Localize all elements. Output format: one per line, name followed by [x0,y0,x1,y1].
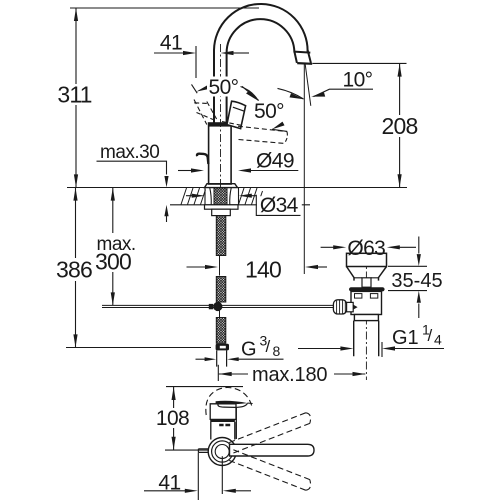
G1-1/4 dim arrows [340,346,353,350]
plan paddle black top [216,401,248,405]
black seal ring [349,287,385,291]
seal cone left [210,188,211,205]
Ø49 right tail + underline [250,170,298,172]
svg-text:Ø63: Ø63 [347,237,385,260]
label 311 [60,84,90,105]
50deg-1 right arrowhead [246,91,258,101]
dashed lever left edge A [194,100,207,125]
plan body sides [211,408,237,440]
G3/8 left tail [196,358,206,360]
plan bottom ref line (pivot level) [165,449,215,451]
140 left tail [187,266,206,268]
body slot left [355,294,362,299]
50-2 lower tail line [272,129,287,131]
spout 10deg slant line [305,64,311,106]
label max.180 [249,366,333,383]
horizontal actuating rod [102,305,335,307]
50deg-2 arrowhead at water line [290,93,304,99]
plan paddle tip line [247,402,252,404]
dim max300 line [112,188,114,306]
svg-text:/: / [428,326,433,345]
svg-text:300: 300 [95,249,131,275]
dashed lever right top edge [238,126,287,131]
dashed lever right cap [284,132,287,144]
35-45 upper line+arrow [418,237,420,254]
plan body dashes [219,424,230,426]
plan left nub [198,449,208,453]
mounting nut [212,209,231,215]
top reference line [70,7,259,9]
max30 arrow up below counter [164,205,168,216]
108 arrow up [172,387,176,400]
svg-text:41: 41 [158,472,180,495]
dim 41 top left arrowhead [183,51,196,55]
spout right tube outer [308,50,311,63]
svg-text:10°: 10° [343,69,373,92]
spout right tube inner [294,52,297,63]
plan middle circle [212,441,233,462]
label max. 300 [94,234,138,271]
35-45 top ref line [388,265,427,267]
svg-text:8: 8 [273,343,281,359]
G3/8 leader underline [238,358,283,360]
right ext line [381,342,383,357]
washer bar [205,205,239,209]
plan inner circle [215,445,229,459]
hole left edge [204,188,206,205]
dim Ø63 arrows [333,245,346,249]
dashed swung paddle [206,387,252,415]
plan 41 right ext line (centerline down) [221,456,223,494]
dim 208 line [399,64,401,188]
seal cone right [230,188,231,205]
Ø34 box [257,196,302,215]
dashed swing marks across riser [197,113,214,120]
50deg-2 lower arrowhead [272,122,285,130]
50deg-1 left arrowhead [196,85,210,92]
drain centerline [365,257,367,381]
hose end fitting [216,344,229,351]
hose segment A [216,216,226,256]
dim 311 line [75,8,77,187]
hole right edge [238,188,240,205]
plan 41 left arrow [185,489,198,493]
faucet body [209,123,232,184]
dim 108 line [173,387,175,450]
lever inner line [233,107,244,111]
hatch left [181,188,206,205]
dim Ø49 arrows [191,168,204,172]
plan neck separator [210,420,235,422]
10deg arrowhead [311,92,325,96]
center square boss [362,278,371,287]
svg-text:108: 108 [156,407,189,430]
max300 arrow up [111,188,115,201]
dim 208 arrow down [398,174,402,187]
svg-text:41: 41 [160,32,182,55]
flange chamfer [347,267,387,281]
35-45 lower line+arrow [418,304,420,319]
solid line through 50-1 right arrowhead [242,86,259,100]
faucet body centerline [220,44,222,187]
140 right tail [318,266,328,268]
35-45 bottom ref line [388,290,427,292]
max180 dim line [219,373,366,375]
threaded shank [214,188,227,205]
dim 208 arrow up [398,64,402,77]
water axis vertical line [303,64,305,274]
svg-text:4: 4 [434,332,442,348]
dim Ø34 arrows [192,194,205,198]
Ø63 right tail [399,246,416,248]
hose segment C [216,318,226,344]
50deg-2 arc [278,88,304,99]
body top black band [209,123,232,127]
Ø34 leader to box [251,195,256,197]
body slot right [370,294,377,299]
plan solid arm (spout) [230,444,315,456]
dim 311 arrow up [74,8,78,21]
knob nut [347,302,354,311]
hose segment B [216,277,226,303]
dim 41 top right tail [233,52,249,54]
drain body [351,291,382,314]
drain flange head [347,253,387,266]
G1-1/4 right tail leader [394,348,444,350]
aerator bottom edge [297,62,312,65]
plan dashed arm up [229,413,310,453]
Ø34 left tail [186,195,193,197]
plan top ref line [166,386,243,388]
dashed lever left cap [194,102,207,105]
spout outer arc [214,4,308,123]
10deg leader [314,89,374,96]
108 arrow down [172,437,176,450]
max180 left ext line [217,365,219,381]
dashed lever right bottom edge [239,140,285,144]
pop-up rod in gap2 [219,302,221,318]
label 50deg 1 [207,77,241,97]
svg-text:140: 140 [245,257,281,283]
max300 arrow down [111,292,115,305]
dim 386 arrow up [73,188,77,201]
knob screw tip [353,305,357,310]
svg-text:Ø49: Ø49 [256,149,294,172]
plan dim 41 left line [144,490,185,492]
dim 386 line [75,188,77,348]
svg-text:50°: 50° [209,76,239,99]
G1-1/4 left tail [298,348,341,350]
plan 41 left ext line [197,453,199,500]
G3/8 small dim arrows [205,357,217,361]
svg-text:Ø34: Ø34 [260,194,299,217]
max180 left arrow [219,372,232,376]
svg-text:50°: 50° [254,100,284,123]
Ø63 left tail [321,246,334,248]
max30 leader underline [97,161,167,174]
Ø49 left tail [178,170,192,172]
svg-text:G1: G1 [392,327,419,349]
max180 right arrow [353,372,366,376]
50deg-1 right arc [241,87,259,101]
countertop top line [67,187,407,189]
dim 386 arrow down [73,334,77,347]
plan lever block [210,404,236,420]
dim 41 top: tick [195,46,197,78]
rod ball joint [213,302,222,311]
G3/8 nipple tube [217,350,227,366]
hatch right [239,188,263,205]
svg-text:max.180: max.180 [252,364,327,386]
label 386 [60,258,90,280]
pull rod hook [197,154,208,164]
dim 41 top: left line [154,52,183,54]
plan paddle underside [218,403,247,407]
knob knurl lines [337,300,346,314]
solid lever handle [227,101,246,128]
svg-text:max.30: max.30 [100,142,159,163]
dim 140 right arrow [305,265,318,269]
max30 arrow down [164,176,168,187]
dim 41 top: right arrow (tip at center line) [221,51,234,55]
plan dashed arm down [229,450,310,490]
countertop bottom line [170,204,310,206]
dim 140 left arrow [205,265,218,269]
plan 41 right tail [235,490,251,492]
max30 lower arrow tail [166,216,168,222]
dim 311 arrow down [74,174,78,187]
lever-left axis tick [192,84,198,93]
pop-up rod in gap1 [219,256,221,276]
svg-text:208: 208 [382,113,418,139]
label 108 [158,408,189,428]
label 208 [384,115,416,137]
aerator top reference line [313,62,407,64]
body bottom rim [354,315,378,321]
dashed lever left edge B [207,102,217,120]
svg-text:35-45: 35-45 [391,270,442,292]
neck shoulder ledges [354,277,379,279]
rod clamp screw [209,304,213,309]
tailpiece [354,321,379,357]
knurled knob [333,300,346,314]
aerator seam [294,52,310,53]
svg-text:311: 311 [57,82,91,108]
spout inner arc [227,19,295,123]
svg-text:G: G [241,338,257,360]
base flange [205,184,238,188]
svg-text:386: 386 [56,257,92,283]
svg-text:/: / [266,337,271,356]
plan outer circle [208,438,236,466]
386 bottom reference line [66,347,211,349]
plan 41 right arrow [223,489,236,493]
